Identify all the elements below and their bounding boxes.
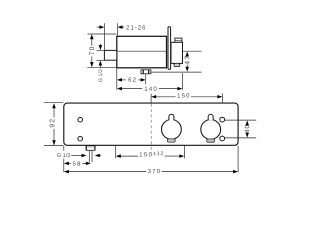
wire body-left extension line top	[117, 23, 119, 36]
label G 1/2 with arrows (front view)	[57, 153, 101, 157]
wire wall-plane extension line	[103, 23, 105, 50]
dimension 140	[117, 87, 182, 91]
faceplate slab (side view)	[168, 27, 171, 70]
hole bottom-right	[220, 136, 225, 141]
wire body-left extension down	[116, 69, 118, 90]
dimension 21-26	[97, 25, 145, 29]
knob main (side view)	[171, 42, 183, 63]
dimension 70	[87, 34, 116, 67]
hole top-right	[220, 117, 225, 122]
wire 47 bottom extension	[151, 71, 202, 73]
dimension 150 knob spacing	[151, 93, 222, 116]
dimension 92	[44, 103, 63, 146]
wire knob-face extension down	[182, 73, 184, 90]
dimension 40 right	[225, 120, 256, 138]
panel (front view)	[64, 103, 238, 145]
dimension 370	[64, 169, 238, 173]
pipe connection G1/2 (side view)	[104, 50, 116, 60]
knob right (front view)	[201, 114, 221, 142]
outlet fitting below body (side view)	[141, 70, 151, 74]
wire panel-right extension down	[237, 146, 239, 172]
wire pipe bottom extension left	[97, 59, 105, 61]
body internal line	[117, 50, 166, 52]
wire panel-left extension down	[63, 146, 65, 151]
label G 1/2 with arrows (side view)	[98, 44, 102, 82]
dimension 47	[185, 52, 190, 72]
hole top-left	[78, 117, 83, 122]
wire fitting centerline extension down	[145, 74, 147, 84]
wire pipe top extension left	[97, 49, 105, 51]
body of mixer (side view)	[117, 36, 167, 68]
knob left (front view)	[162, 114, 182, 142]
knob cap (side view)	[175, 38, 182, 42]
dimension 58	[64, 161, 91, 165]
centerline dashed	[150, 104, 152, 156]
dimension 150±12	[116, 146, 185, 159]
pipe below fitting	[88, 151, 90, 163]
dimension 62	[117, 77, 146, 81]
wire 47 top extension	[183, 50, 201, 52]
hole bottom-left	[78, 136, 83, 141]
knob bottom tab (side view)	[174, 63, 180, 66]
outlet fitting below panel (front view)	[86, 146, 95, 150]
